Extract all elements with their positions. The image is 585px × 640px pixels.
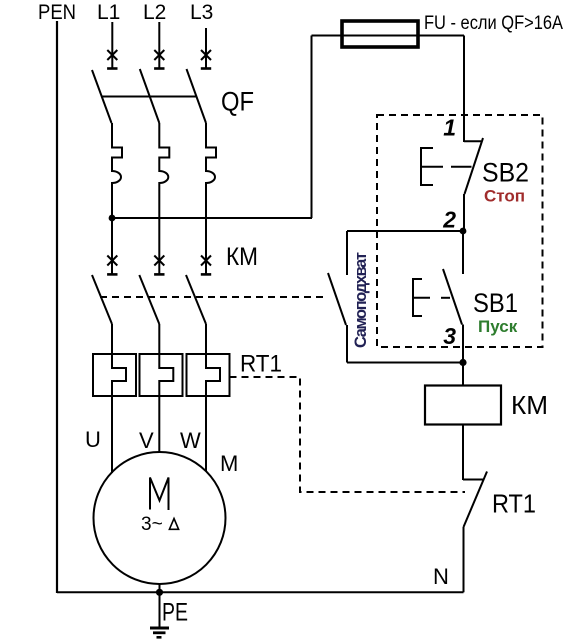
relay RT1 heater box 2 xyxy=(140,354,183,396)
svg-text:КМ: КМ xyxy=(226,243,258,271)
wire fuse feed horizontal xyxy=(312,35,465,37)
svg-text:QF: QF xyxy=(221,87,254,117)
wire control drop to SB2 xyxy=(463,36,465,143)
wire V to motor xyxy=(158,396,160,453)
dashed box buttons xyxy=(377,115,543,347)
contactor KM pole 2 blade xyxy=(139,275,159,324)
svg-text:FU - если QF>16A: FU - если QF>16A xyxy=(424,13,563,34)
node 3 dot xyxy=(459,359,466,366)
svg-text:2: 2 xyxy=(442,207,456,233)
svg-text:U: U xyxy=(85,427,101,452)
mechanical link RT1 dashed path xyxy=(230,377,466,492)
svg-text:Пуск: Пуск xyxy=(478,317,518,336)
svg-text:PEN: PEN xyxy=(38,1,76,24)
wire W to motor xyxy=(205,396,207,471)
wire latch top xyxy=(347,230,463,232)
svg-text:PE: PE xyxy=(162,599,188,627)
terminal X1 top xyxy=(107,50,117,69)
svg-text:M: M xyxy=(220,451,238,476)
svg-text:Самоподхват: Самоподхват xyxy=(352,252,370,348)
relay RT1 heater box 3 xyxy=(187,354,230,396)
svg-text:Стоп: Стоп xyxy=(484,187,525,206)
svg-text:1: 1 xyxy=(443,115,456,141)
svg-text:RT1: RT1 xyxy=(240,351,282,378)
wire L1 drop xyxy=(111,22,113,69)
relay RT1 heater box 1 xyxy=(93,354,136,396)
wire phase B to KM xyxy=(158,218,160,274)
svg-text:N: N xyxy=(433,564,449,589)
breaker QF pole 1 trip element xyxy=(112,123,122,218)
wire phase A to KM xyxy=(111,218,113,274)
button SB2 actuator xyxy=(421,148,472,185)
svg-text:КМ: КМ xyxy=(511,390,548,420)
wire PE drop xyxy=(159,583,161,627)
breaker QF pole 3 blade xyxy=(187,69,207,123)
svg-text:3~: 3~ xyxy=(141,514,163,535)
button SB1 actuator xyxy=(413,279,450,316)
wire bus junction row xyxy=(112,217,312,219)
wire node3 to coil xyxy=(462,363,464,386)
wire pole3 to RT1 xyxy=(205,324,207,354)
terminal X3 mid xyxy=(201,256,211,275)
svg-text:RT1: RT1 xyxy=(492,491,536,519)
wire latch left upper xyxy=(346,231,348,275)
motor M glyph xyxy=(150,478,169,511)
breaker QF pole 1 blade xyxy=(92,70,112,123)
fuse FU xyxy=(342,21,418,47)
terminal X3 top xyxy=(201,50,211,69)
contact RT1 xyxy=(463,472,487,593)
node junction dot phase A xyxy=(109,215,116,222)
breaker QF pole 3 trip element xyxy=(206,123,216,218)
svg-text:SB2: SB2 xyxy=(482,158,529,188)
wire U to motor xyxy=(111,396,113,473)
mechanical link KM dashed xyxy=(100,296,326,298)
svg-text:L2: L2 xyxy=(143,1,166,24)
svg-text:L3: L3 xyxy=(190,1,213,24)
terminal X1 mid xyxy=(107,256,117,275)
breaker QF pole 2 blade xyxy=(140,69,160,123)
contact KM aux blade xyxy=(328,273,346,325)
wire L2 drop xyxy=(158,22,160,69)
breaker QF pole 2 trip element xyxy=(159,123,169,218)
wire coil to RT1 contact xyxy=(462,425,464,481)
svg-text:L1: L1 xyxy=(97,1,120,24)
wire control tap vertical xyxy=(311,36,313,219)
terminal X2 top xyxy=(154,50,164,69)
wire pole1 to RT1 xyxy=(111,324,113,354)
label motor delta xyxy=(169,519,178,530)
wire bottom bus xyxy=(57,591,464,593)
contactor KM pole 3 blade xyxy=(186,275,206,324)
motor M1 circle xyxy=(94,452,226,584)
svg-text:W: W xyxy=(180,428,201,453)
coil KM xyxy=(425,386,501,425)
svg-text:3: 3 xyxy=(443,323,456,349)
wire phase C to KM xyxy=(205,218,207,274)
wire latch bottom xyxy=(347,362,463,364)
button SB1 contact xyxy=(443,269,463,363)
wire PEN vertical xyxy=(56,21,58,593)
contactor KM pole 1 blade xyxy=(92,275,112,324)
node motor PE junction xyxy=(156,589,163,596)
svg-text:SB1: SB1 xyxy=(473,288,518,318)
wire node2 to SB1 xyxy=(462,231,464,274)
wire latch left lower xyxy=(346,325,348,363)
button SB2 contact xyxy=(464,138,483,231)
terminal X2 mid xyxy=(154,256,164,275)
breaker QF linkage bar xyxy=(101,96,196,98)
ground PE symbol xyxy=(150,628,169,637)
node 2 dot xyxy=(460,228,467,235)
wire pole2 to RT1 xyxy=(158,324,160,354)
svg-text:V: V xyxy=(139,428,154,453)
wire L3 drop xyxy=(205,28,207,69)
